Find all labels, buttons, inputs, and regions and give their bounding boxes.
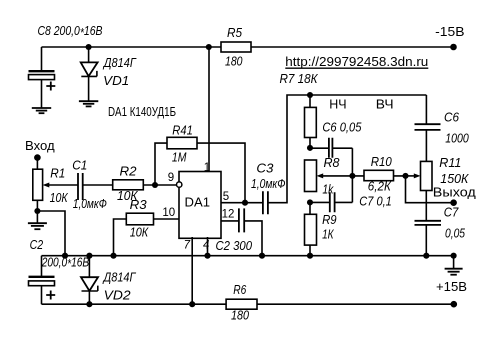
node inverting input xyxy=(152,182,158,188)
resistor R41 xyxy=(167,123,197,165)
wire pin 1 to -15V rail xyxy=(208,47,210,172)
resistor R5 xyxy=(221,25,251,68)
svg-text:R3: R3 xyxy=(130,197,148,212)
svg-text:180: 180 xyxy=(231,308,250,323)
capacitor C2 xyxy=(29,237,90,304)
svg-text:Д814Г: Д814Г xyxy=(102,269,136,284)
svg-text:НЧ: НЧ xyxy=(329,96,346,111)
svg-text:4: 4 xyxy=(203,240,209,252)
svg-text:C6 0,05: C6 0,05 xyxy=(322,120,362,135)
node pin 4 xyxy=(204,253,210,259)
wire pin 4 to mid rail xyxy=(207,237,209,256)
svg-text:R11: R11 xyxy=(439,155,461,170)
wire R1 wiper to C1 xyxy=(49,184,78,186)
wire C8 top lead xyxy=(41,47,43,71)
svg-text:C6: C6 xyxy=(444,110,460,125)
zener diode VD2 xyxy=(81,256,136,305)
label ВЧ xyxy=(376,96,394,111)
svg-text:VD2: VD2 xyxy=(104,288,132,303)
svg-text:VD1: VD1 xyxy=(103,73,129,88)
wire C3 to tone network top xyxy=(268,95,427,203)
pin 10 label xyxy=(162,207,175,219)
svg-text:1М: 1М xyxy=(172,149,187,164)
svg-text:R41: R41 xyxy=(172,123,193,138)
svg-text:C2: C2 xyxy=(30,237,44,252)
pin 1 label xyxy=(204,162,210,174)
terminal -15V xyxy=(435,24,464,51)
node VD2 bottom xyxy=(86,301,92,307)
capacitor C8 xyxy=(29,23,103,108)
capacitor C6 1000 xyxy=(415,95,470,161)
svg-text:+15В: +15В xyxy=(436,279,467,294)
svg-text:7: 7 xyxy=(184,240,191,252)
capacitor C6 0,05 xyxy=(310,120,362,158)
node mid rail ground xyxy=(451,253,457,259)
wire C1 to R2 xyxy=(83,184,113,186)
svg-text:1,0мкФ: 1,0мкФ xyxy=(251,176,286,191)
svg-text:R9: R9 xyxy=(322,212,337,227)
terminal Вход xyxy=(25,138,55,161)
capacitor C7 0,1 xyxy=(310,192,392,212)
potentiometer R11 xyxy=(421,155,470,191)
svg-text:R10: R10 xyxy=(371,154,393,169)
wire output from R10 node xyxy=(406,176,454,203)
svg-text:180: 180 xyxy=(225,53,243,68)
resistor R2 xyxy=(113,163,144,203)
svg-text:Выход: Выход xyxy=(433,185,476,200)
ground (C8) xyxy=(32,108,51,113)
wire capacitor bus vertical xyxy=(351,148,353,202)
label НЧ xyxy=(329,96,346,111)
svg-text:1k: 1k xyxy=(322,181,334,196)
node R9 bottom xyxy=(307,253,313,259)
terminal Выход xyxy=(433,185,476,206)
label url xyxy=(285,54,428,69)
node R1 branch mid rail xyxy=(62,253,68,259)
node B xyxy=(307,199,313,205)
pin 7 label xyxy=(184,240,191,252)
node R1 ground xyxy=(34,208,40,214)
potentiometer R8 xyxy=(305,155,341,196)
svg-text:ВЧ: ВЧ xyxy=(376,96,394,111)
wire R1 ground node to mid rail xyxy=(37,211,65,256)
pin 9 inversion circle xyxy=(177,182,182,187)
pin 9 label xyxy=(168,172,174,184)
node VD1 top rail xyxy=(86,44,92,50)
wire pin 7 to +15V rail xyxy=(191,237,193,304)
node A xyxy=(307,145,313,151)
svg-text:http://299792458.3dn.ru: http://299792458.3dn.ru xyxy=(285,54,428,69)
svg-text:Вход: Вход xyxy=(25,138,55,153)
svg-text:10К: 10К xyxy=(50,190,69,205)
resistor R3 xyxy=(126,197,153,239)
svg-text:5: 5 xyxy=(223,191,229,203)
resistor R7 xyxy=(305,95,317,148)
svg-text:C3: C3 xyxy=(256,161,274,176)
pin 5 label xyxy=(223,191,229,203)
resistor R6 xyxy=(226,282,257,323)
svg-text:R1: R1 xyxy=(50,165,65,180)
wire to R11 wiper with arrow xyxy=(406,173,421,178)
pin 12 label xyxy=(222,208,235,220)
label R7 18K xyxy=(280,71,319,86)
node pin 7 xyxy=(189,301,195,307)
svg-text:1000: 1000 xyxy=(445,130,469,145)
svg-text:6,2К: 6,2К xyxy=(368,179,392,194)
node C2 300 mid rail xyxy=(259,253,265,259)
capacitor C1 xyxy=(72,158,107,211)
svg-text:0,05: 0,05 xyxy=(445,226,466,241)
node tone top xyxy=(307,92,313,98)
svg-text:10К: 10К xyxy=(130,225,150,240)
op-amp DA1 xyxy=(179,172,221,239)
wire input lead xyxy=(36,158,38,170)
node pin1 rail xyxy=(206,44,212,50)
svg-text:DA1: DA1 xyxy=(185,195,211,210)
svg-text:C8 200,0*16В: C8 200,0*16В xyxy=(38,23,103,40)
svg-text:12: 12 xyxy=(222,208,235,220)
ground (output) xyxy=(445,256,463,275)
potentiometer R1 xyxy=(33,165,69,204)
svg-text:200,0*16В: 200,0*16В xyxy=(41,254,90,271)
svg-text:1: 1 xyxy=(204,162,210,174)
svg-text:1,0мкФ: 1,0мкФ xyxy=(73,196,107,211)
node C7 0,05 bottom xyxy=(423,253,429,259)
terminal +15V xyxy=(436,279,467,307)
ground (VD1) xyxy=(79,101,98,106)
wire mid rail xyxy=(42,255,454,257)
svg-text:C1: C1 xyxy=(72,158,87,173)
wire R3 left lead xyxy=(114,219,127,256)
node R3 branch mid rail xyxy=(110,253,116,259)
resistor R10 xyxy=(352,154,405,193)
svg-text:R6: R6 xyxy=(233,282,247,297)
capacitor C7 0,05 xyxy=(415,191,466,256)
svg-text:C7 0,1: C7 0,1 xyxy=(359,194,392,209)
svg-text:R2: R2 xyxy=(120,163,138,178)
wire R41 left lead xyxy=(155,143,167,185)
capacitor C2 300 xyxy=(216,208,253,252)
svg-text:R7 18К: R7 18К xyxy=(280,71,319,86)
svg-text:R5: R5 xyxy=(227,25,243,40)
wire R41 right lead xyxy=(197,143,245,203)
wire R2 to pin 9 xyxy=(143,184,176,186)
svg-text:1К: 1К xyxy=(322,226,335,241)
wire C2 top lead xyxy=(41,256,43,277)
svg-text:9: 9 xyxy=(168,172,174,184)
svg-text:C2 300: C2 300 xyxy=(216,238,253,253)
label DA1 type xyxy=(108,104,176,119)
wire +15V rail xyxy=(42,303,454,305)
wire pin 12 lead xyxy=(221,220,239,222)
resistor R9 xyxy=(305,202,337,255)
wire pin 5 lead xyxy=(221,202,263,204)
capacitor C3 xyxy=(251,161,286,215)
svg-text:10: 10 xyxy=(162,207,175,219)
zener diode VD1 xyxy=(81,47,137,101)
node pin5 / R41 xyxy=(242,200,248,206)
node VD2 top xyxy=(86,253,92,259)
node wiper bus xyxy=(349,173,355,179)
wire -15V top rail xyxy=(42,46,454,48)
node R10 output xyxy=(402,173,408,179)
wire R1 bottom lead xyxy=(36,200,38,211)
svg-text:R8: R8 xyxy=(324,155,341,170)
ground (R1) xyxy=(28,211,47,229)
svg-text:-15В: -15В xyxy=(435,24,464,39)
wire C2 300 to mid rail xyxy=(244,221,262,256)
svg-text:C7: C7 xyxy=(444,205,459,220)
wire R8 wiper xyxy=(323,175,353,177)
pin 4 label xyxy=(203,240,209,252)
svg-text:DA1 К140УД1Б: DA1 К140УД1Б xyxy=(108,104,176,119)
wire R3 right lead (pin 10) xyxy=(154,218,180,220)
svg-text:Д814Г: Д814Г xyxy=(102,55,136,70)
